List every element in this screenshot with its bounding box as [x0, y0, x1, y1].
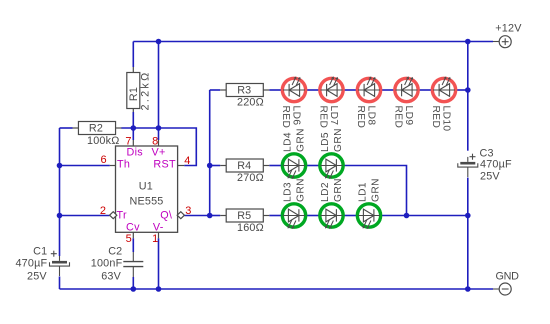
- svg-text:LD2: LD2: [320, 182, 331, 202]
- wire R1 top branch: [132, 42, 134, 68]
- label LD3 GRN: [283, 178, 307, 202]
- wire green LED row 3: [269, 215, 468, 217]
- wire R2 left to rail: [60, 127, 73, 129]
- svg-text:V+: V+: [152, 146, 166, 158]
- svg-text:R2: R2: [89, 122, 103, 134]
- svg-text:4: 4: [184, 155, 190, 167]
- wire Q output: [184, 215, 209, 217]
- wire left rail lower: [59, 277, 61, 290]
- svg-text:7: 7: [125, 135, 131, 147]
- junction Th left rail: [57, 163, 63, 169]
- wire trunk to R3: [210, 89, 221, 91]
- svg-text:GRN: GRN: [296, 128, 307, 152]
- svg-text:470µF: 470µF: [480, 159, 512, 171]
- LED LD4 green: [282, 154, 305, 179]
- junction R1 bottom net: [131, 125, 137, 131]
- svg-text:GRN: GRN: [333, 128, 344, 152]
- LED LD5 green: [320, 154, 343, 179]
- pin Dis label: [127, 146, 144, 158]
- label C1: [33, 245, 47, 257]
- svg-text:270Ω: 270Ω: [237, 172, 264, 184]
- wire net Dis/V+/RST: [121, 128, 196, 166]
- junction red row right rail: [465, 87, 471, 93]
- LED LD6 red: [282, 76, 305, 101]
- pin number 1: [152, 233, 158, 245]
- junction row3 right rail: [465, 213, 471, 219]
- ground GND terminal: [493, 283, 511, 295]
- svg-text:1: 1: [152, 233, 158, 245]
- junction right rail top: [465, 39, 471, 45]
- pin V+ label: [152, 146, 166, 158]
- junction trunk R4: [207, 163, 213, 169]
- LED LD7 red: [320, 76, 343, 101]
- svg-text:RED: RED: [430, 106, 441, 129]
- resistor R2: [72, 122, 121, 135]
- label LD8 RED: [355, 106, 376, 129]
- label LD2 GRN: [320, 178, 344, 202]
- value C2 63V: [101, 271, 121, 283]
- label C2: [108, 245, 122, 257]
- pin Q label: [160, 210, 172, 222]
- value R1 2.2k: [139, 71, 151, 111]
- svg-text:Cv: Cv: [126, 222, 140, 234]
- svg-text:V-: V-: [153, 222, 164, 234]
- svg-text:470µF: 470µF: [15, 258, 47, 270]
- pin Cv label: [126, 222, 140, 234]
- svg-text:R5: R5: [237, 210, 251, 222]
- svg-text:GND: GND: [496, 271, 520, 283]
- junction C2 ground: [131, 286, 137, 292]
- svg-text:GRN: GRN: [333, 178, 344, 202]
- value C1 25V: [27, 271, 47, 283]
- svg-text:Dis: Dis: [127, 146, 144, 158]
- LED LD1 green: [357, 204, 380, 229]
- value C3 25V: [480, 170, 500, 182]
- pin V- label: [153, 222, 164, 234]
- svg-text:LD1: LD1: [358, 182, 369, 202]
- svg-text:220Ω: 220Ω: [237, 96, 264, 108]
- svg-text:R3: R3: [237, 85, 251, 97]
- svg-text:LD4: LD4: [283, 132, 294, 152]
- label LD9 RED: [393, 106, 414, 129]
- wire Q trunk vertical: [209, 90, 211, 216]
- pin number 4: [184, 155, 190, 167]
- svg-text:RED: RED: [318, 106, 329, 129]
- svg-text:RED: RED: [280, 106, 291, 129]
- wire C2 to ground rail: [132, 277, 134, 289]
- pin Tr diamond: [110, 212, 117, 219]
- label LD5 GRN: [320, 128, 344, 152]
- LED LD3 green: [282, 204, 305, 229]
- svg-text:C3: C3: [480, 147, 494, 159]
- label LD7 RED: [318, 106, 339, 129]
- svg-text:8: 8: [152, 135, 158, 147]
- pin number 6: [100, 154, 106, 166]
- pin number 5: [126, 233, 132, 245]
- pin number 2: [100, 205, 106, 217]
- wire red LED row: [269, 89, 468, 91]
- value C1 470uF: [15, 258, 47, 270]
- svg-text:63V: 63V: [101, 271, 121, 283]
- pin number 8: [152, 135, 158, 147]
- value R3 220: [237, 96, 264, 108]
- wire +12V top rail: [133, 41, 493, 43]
- capacitor C1: [50, 251, 70, 276]
- label LD1 GRN: [358, 178, 382, 202]
- resistor R5: [220, 209, 269, 222]
- svg-text:NE555: NE555: [130, 196, 164, 208]
- label LD6 RED: [280, 106, 301, 129]
- resistor R1: [127, 67, 140, 112]
- label LD4 GRN: [283, 128, 307, 152]
- svg-text:2: 2: [100, 205, 106, 217]
- wire right rail upper: [467, 42, 469, 151]
- label GND: [496, 271, 520, 283]
- op-amp U1 NE555 body: [116, 146, 178, 232]
- wire R1 bottom to net: [132, 112, 134, 128]
- svg-text:6: 6: [100, 154, 106, 166]
- wire GND bottom rail: [60, 288, 494, 290]
- wire right rail lower: [467, 178, 469, 289]
- svg-text:2.2kΩ: 2.2kΩ: [139, 71, 151, 111]
- value R2 100k: [87, 135, 119, 147]
- svg-text:+12V: +12V: [495, 23, 522, 35]
- svg-text:GRN: GRN: [371, 178, 382, 202]
- value C2 100nF: [91, 258, 123, 270]
- pin Th label: [117, 159, 130, 171]
- junction Tr left rail: [57, 213, 63, 219]
- svg-text:C2: C2: [108, 245, 122, 257]
- svg-text:Tr: Tr: [117, 210, 127, 222]
- junction V+ rail top: [156, 39, 162, 45]
- svg-text:C1: C1: [33, 245, 47, 257]
- capacitor C3: [458, 154, 478, 177]
- pin Q diamond: [177, 212, 184, 219]
- junction right rail ground: [465, 286, 471, 292]
- pin RST label: [153, 159, 176, 171]
- supply +12V terminal: [493, 36, 511, 48]
- svg-text:Q\: Q\: [160, 210, 172, 222]
- svg-text:Th: Th: [117, 159, 130, 171]
- svg-text:160Ω: 160Ω: [237, 222, 264, 234]
- wire trunk to R5: [210, 215, 221, 217]
- junction trunk R5: [207, 213, 213, 219]
- pin Tr label: [117, 210, 127, 222]
- pin number 7: [125, 135, 131, 147]
- value NE555: [130, 196, 164, 208]
- svg-text:U1: U1: [139, 181, 153, 193]
- capacitor C2: [123, 252, 143, 277]
- label C3: [480, 147, 494, 159]
- wire left rail upper: [59, 128, 61, 256]
- wire pin1 V- to ground: [158, 232, 160, 289]
- svg-text:100kΩ: 100kΩ: [87, 135, 119, 147]
- wire trunk to R4: [210, 165, 221, 167]
- resistor R3: [220, 84, 269, 97]
- resistor R4: [220, 159, 269, 172]
- wire pin5 to C2: [132, 232, 134, 252]
- wire Tr line: [60, 215, 110, 217]
- junction V- ground: [156, 286, 162, 292]
- svg-text:RST: RST: [153, 159, 176, 171]
- svg-text:R4: R4: [237, 160, 251, 172]
- LED LD10 red: [432, 76, 455, 101]
- svg-text:RED: RED: [393, 106, 404, 129]
- value C3 470uF: [480, 159, 512, 171]
- svg-text:100nF: 100nF: [91, 258, 123, 270]
- svg-text:RED: RED: [355, 106, 366, 129]
- svg-text:5: 5: [126, 233, 132, 245]
- svg-text:GRN: GRN: [296, 178, 307, 202]
- LED LD2 green: [320, 204, 343, 229]
- value R5 160: [237, 222, 264, 234]
- junction row2-row3: [404, 213, 410, 219]
- label LD10 RED: [430, 106, 451, 132]
- svg-text:LD5: LD5: [320, 132, 331, 152]
- wire V+ rail drop pin8: [158, 42, 160, 147]
- wire green LED row 2: [269, 166, 406, 216]
- svg-text:25V: 25V: [27, 271, 47, 283]
- svg-text:3: 3: [185, 205, 191, 217]
- svg-text:LD3: LD3: [283, 182, 294, 202]
- wire Th line: [60, 165, 116, 167]
- value R4 270: [237, 172, 264, 184]
- junction pin8 net: [156, 125, 162, 131]
- svg-text:25V: 25V: [480, 170, 500, 182]
- LED LD8 red: [357, 76, 380, 101]
- name U1: [139, 181, 153, 193]
- pin number 3: [185, 205, 191, 217]
- LED LD9 red: [395, 76, 418, 101]
- label +12V: [495, 23, 522, 35]
